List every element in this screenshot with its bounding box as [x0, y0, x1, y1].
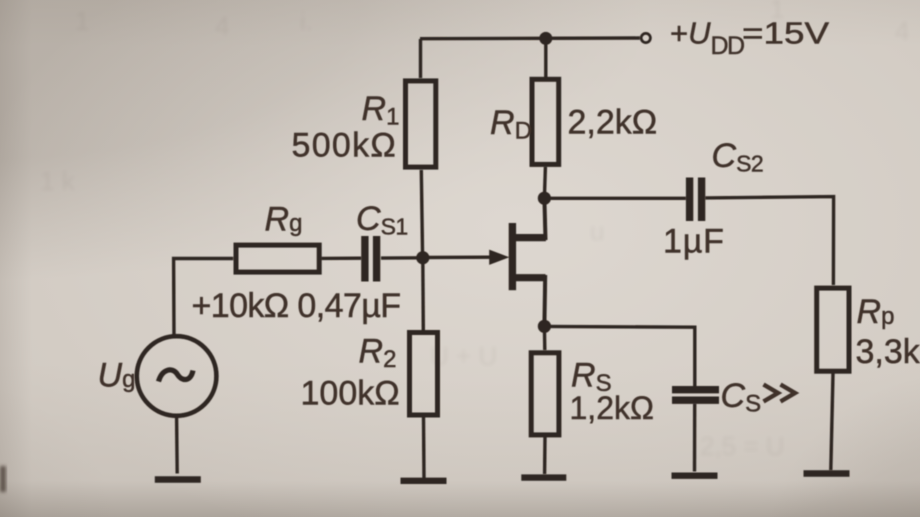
- JFET drain stub: [512, 234, 546, 241]
- svg-text:CS: CS: [721, 377, 762, 418]
- svg-text:=15V: =15V: [742, 16, 829, 51]
- svg-text:U + U: U + U: [430, 341, 497, 371]
- node: source junction: [538, 320, 551, 333]
- schematic ink: [137, 32, 850, 481]
- svg-text:4: 4: [895, 16, 909, 46]
- wire: RD bottom to drain node: [544, 167, 545, 198]
- label much-greater symbol: [764, 385, 796, 402]
- svg-text:1,2kΩ: 1,2kΩ: [570, 390, 654, 426]
- node: supply rail / RD junction: [539, 32, 552, 45]
- ground under Rp: [804, 470, 850, 476]
- svg-text:+UDD: +UDD: [670, 16, 744, 61]
- transistor JFET channel bar: [509, 223, 516, 290]
- svg-text:R2: R2: [359, 333, 397, 374]
- ground under R2: [401, 478, 447, 484]
- svg-text:u: u: [590, 216, 604, 246]
- svg-text:Ug: Ug: [98, 357, 136, 395]
- resistor Rp body: [817, 288, 849, 371]
- resistor RS body: [531, 353, 559, 435]
- wire: drain stub up to drain node: [544, 198, 545, 240]
- ground under RS: [521, 474, 566, 480]
- wire: CS1 to gate node: [381, 256, 423, 260]
- svg-text:4: 4: [215, 11, 229, 41]
- wire: source stub down to source node: [542, 275, 547, 326]
- svg-text:Rp: Rp: [857, 293, 895, 331]
- svg-text:+10kΩ 0,47µF: +10kΩ 0,47µF: [192, 287, 401, 325]
- svg-text:1 k: 1 k: [40, 166, 76, 196]
- capacitor CS2 plates: [686, 178, 693, 222]
- wire: CS2 to Rp corner: [706, 197, 834, 285]
- wire: top supply rail: [419, 39, 422, 78]
- JFET gate arrowhead: [489, 250, 509, 265]
- wire: drain node to CS2: [544, 197, 685, 200]
- wire: R2 top from gate node: [421, 258, 425, 330]
- svg-text:Rg: Rg: [265, 201, 303, 239]
- svg-text:2,5 = U: 2,5 = U: [700, 431, 785, 461]
- capacitor CS plates: [672, 386, 719, 393]
- svg-text:2,2kΩ: 2,2kΩ: [568, 104, 658, 142]
- wire: R1 bottom to gate node: [421, 170, 422, 258]
- wire: RS bottom to ground: [543, 437, 547, 474]
- svg-text:1: 1: [75, 6, 89, 36]
- svg-text:R1: R1: [362, 90, 400, 131]
- resistor RD (2,2k) body: [544, 39, 547, 78]
- svg-text:CS2: CS2: [712, 137, 764, 177]
- svg-text:500kΩ: 500kΩ: [292, 127, 398, 165]
- svg-text:3,3kΩ: 3,3kΩ: [856, 333, 920, 371]
- capacitor CS1 plates: [361, 236, 368, 282]
- svg-text:i.: i.: [300, 6, 313, 36]
- wire: source node to CS column: [544, 326, 694, 386]
- photo edge artifacts: [0, 466, 6, 492]
- wire: CS bottom to ground: [693, 404, 697, 472]
- source Ug circle: [137, 336, 217, 416]
- svg-text:100kΩ: 100kΩ: [301, 375, 400, 413]
- wire: source node down to RS: [543, 327, 547, 351]
- wire: R2 bottom to ground: [422, 418, 426, 479]
- resistor R2 body: [410, 333, 438, 416]
- resistor R1 (500k) body: [406, 81, 436, 167]
- svg-text:CS1: CS1: [356, 200, 408, 240]
- wire: Rg to CS1: [322, 257, 361, 261]
- resistor Rg body: [236, 245, 319, 272]
- svg-text:1µF: 1µF: [663, 223, 725, 261]
- node: gate junction: [416, 251, 429, 264]
- terminal: +UDD open circle: [641, 33, 650, 42]
- ground under CS: [672, 473, 718, 479]
- JFET source stub: [512, 274, 546, 281]
- wire: Rp bottom to ground: [831, 374, 833, 471]
- tilde inside Ug: [159, 370, 194, 382]
- wire: Ug column up and over to Rg: [174, 259, 234, 336]
- wire: gate node to JFET gate arrow: [423, 256, 491, 260]
- node: drain/output junction: [538, 192, 551, 205]
- ground under Ug: [155, 476, 201, 482]
- svg-text:RD: RD: [490, 104, 532, 145]
- wire: Ug bottom to ground: [175, 418, 179, 474]
